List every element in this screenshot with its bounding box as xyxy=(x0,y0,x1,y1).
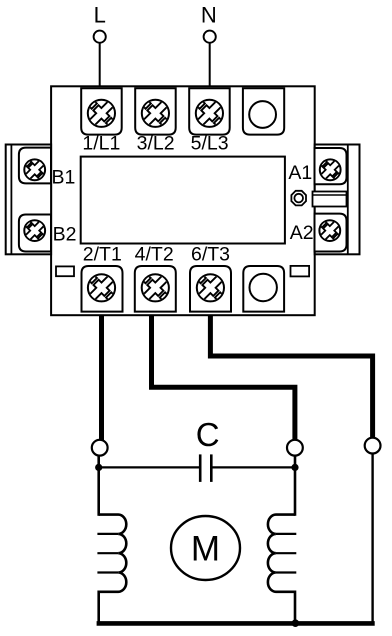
screw 3/L2 xyxy=(134,92,177,135)
screw 4/T2 xyxy=(134,266,177,309)
top auxiliary block with hole xyxy=(243,88,284,134)
terminal circle N xyxy=(204,31,216,43)
screw 6/T3 xyxy=(189,266,232,309)
junction dot left xyxy=(95,464,102,471)
capacitor C plates xyxy=(199,454,202,482)
relay U1 main body xyxy=(51,86,315,315)
connector circle right xyxy=(365,438,381,454)
terminal block 4/T2 xyxy=(135,266,176,312)
svg-text:A2: A2 xyxy=(290,222,314,244)
terminal circle L xyxy=(94,31,106,43)
wire capacitor to junction right xyxy=(213,466,296,468)
winding coil right xyxy=(268,515,295,623)
wire junction left to capacitor xyxy=(99,466,199,468)
wire L to relay xyxy=(99,43,101,87)
wire from 2/T1 down xyxy=(99,315,104,441)
svg-text:M: M xyxy=(191,529,220,568)
junction dot bottom xyxy=(292,619,300,627)
connector circle left xyxy=(92,440,108,456)
terminal block A2 xyxy=(315,214,347,252)
terminal block 5/L3 xyxy=(189,88,230,134)
junction dot right xyxy=(291,464,298,471)
svg-text:4/T2: 4/T2 xyxy=(135,244,174,266)
screw 1/L1 xyxy=(80,92,123,135)
motor M xyxy=(171,516,240,580)
terminal block A1 xyxy=(315,148,347,184)
svg-text:5/L3: 5/L3 xyxy=(191,132,229,154)
svg-text:B1: B1 xyxy=(52,167,76,189)
screw A2 xyxy=(313,214,346,247)
small marker rectangle right xyxy=(291,266,310,277)
terminal block 1/L1 xyxy=(81,88,122,134)
wire circle left to coil xyxy=(97,455,100,516)
svg-text:3/L2: 3/L2 xyxy=(137,132,175,154)
bottom wire xyxy=(97,621,375,626)
svg-text:L: L xyxy=(94,2,106,27)
svg-text:N: N xyxy=(201,2,217,27)
screw B1 xyxy=(18,153,51,186)
svg-text:1/L1: 1/L1 xyxy=(82,132,120,154)
screw A1 xyxy=(314,153,347,186)
bottom auxiliary block with hole xyxy=(243,266,284,312)
svg-text:6/T3: 6/T3 xyxy=(191,244,230,266)
winding coil left xyxy=(99,515,127,623)
wire N to relay xyxy=(209,43,211,87)
connector circle middle xyxy=(287,440,303,456)
marking window rectangle on right flange xyxy=(313,192,347,207)
terminal block 2/T1 xyxy=(82,266,123,312)
svg-text:2/T1: 2/T1 xyxy=(83,244,122,266)
svg-text:C: C xyxy=(196,416,220,453)
wire circle middle to coil xyxy=(294,455,297,516)
wire circle right down to bottom xyxy=(371,453,373,623)
svg-text:A1: A1 xyxy=(288,162,312,184)
screw 2/T1 xyxy=(80,266,123,309)
LED indicator xyxy=(288,188,309,209)
svg-text:B2: B2 xyxy=(53,224,77,246)
terminal block 6/T3 xyxy=(190,266,231,312)
terminal block B1 xyxy=(19,148,51,184)
terminal block B2 xyxy=(19,215,51,252)
relay right mounting flange xyxy=(315,145,360,255)
wire from 4/T2 to right branch xyxy=(152,315,295,441)
relay left mounting flange xyxy=(6,145,51,255)
wire from 6/T3 to far right branch xyxy=(210,315,372,439)
screw B2 xyxy=(18,214,51,247)
small marker rectangle left xyxy=(56,266,74,276)
terminal block 3/L2 xyxy=(135,88,176,134)
relay front display window xyxy=(81,157,285,244)
screw 5/L3 xyxy=(188,92,231,135)
